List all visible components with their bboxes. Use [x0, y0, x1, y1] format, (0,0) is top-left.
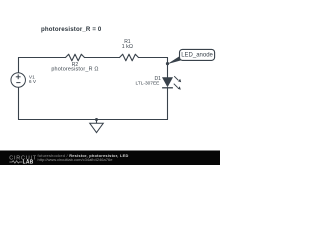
svg-text:LTL-307EE: LTL-307EE	[135, 81, 159, 87]
svg-text:LAB: LAB	[23, 160, 34, 165]
svg-text:photoresistor_R = 0: photoresistor_R = 0	[41, 26, 102, 33]
svg-text:1 kΩ: 1 kΩ	[122, 44, 133, 50]
svg-text:LED_anode: LED_anode	[181, 53, 213, 59]
svg-text:6 V: 6 V	[29, 79, 37, 85]
svg-text:http://www.circuitlab.com/c34a: http://www.circuitlab.com/c34afb4246a76e	[38, 157, 114, 162]
svg-text:photoresistor_R Ω: photoresistor_R Ω	[51, 66, 98, 72]
